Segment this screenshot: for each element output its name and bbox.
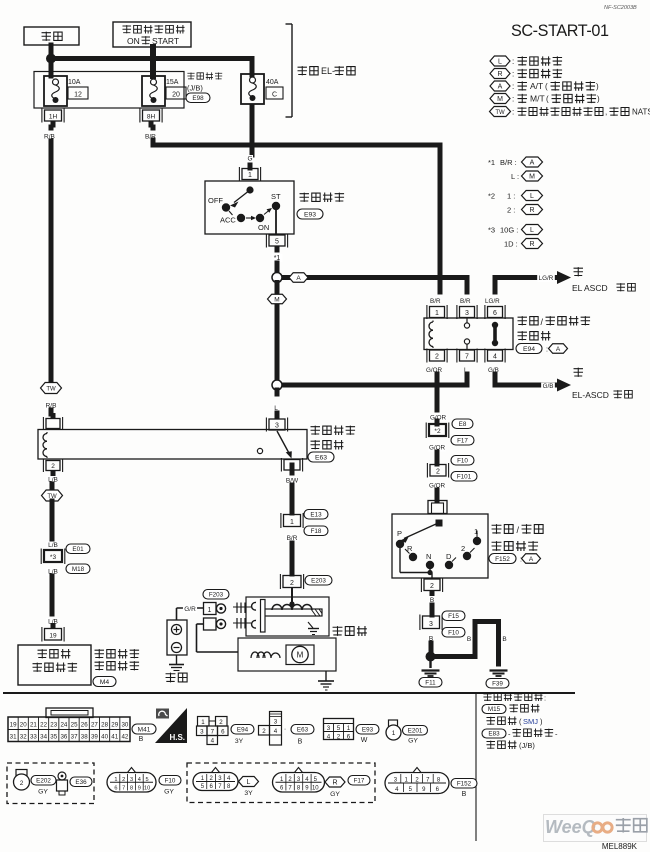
PNP pos D [445,552,456,569]
note *3 [488,225,543,235]
svg-text:1: 1 [201,719,205,726]
note E83 fusebox [482,728,558,738]
svg-text:4: 4 [138,777,141,783]
svg-text:3Y: 3Y [244,790,253,797]
connector E94 pinout [197,717,229,745]
svg-text:5: 5 [275,238,279,245]
svg-text:*2: *2 [434,428,441,435]
svg-text:7: 7 [211,729,215,736]
solenoid plunger bar [262,609,322,616]
note *3 R [504,239,543,249]
title SC-START-01 [511,22,609,40]
svg-text:B: B [139,736,144,743]
wire ignition box to fuse 15A [150,47,156,76]
svg-text:6: 6 [114,786,117,792]
svg-text:E94: E94 [523,346,535,353]
solenoid terminal top [252,602,256,610]
svg-text:L/B: L/B [48,542,58,549]
svg-text:L: L [247,779,251,786]
note JB line2 [486,740,535,750]
svg-text:23: 23 [50,722,57,729]
svg-text:A/T: A/T [530,81,543,91]
svg-text:10G :: 10G : [500,226,518,235]
svg-text:D: D [446,552,452,561]
connector hatch top [233,603,251,614]
svg-text:38: 38 [81,734,88,741]
PNP pos 1 [473,527,481,545]
PNP pos P [396,529,404,548]
svg-text:LG/R: LG/R [539,275,554,282]
svg-text:3: 3 [200,729,204,736]
svg-text::: : [512,82,514,91]
svg-text:A: A [529,556,534,563]
PNP relay wire labels bottom [426,367,499,374]
svg-text:F15: F15 [448,613,459,620]
svg-text:B/R: B/R [460,298,471,305]
wire labels B B [466,636,508,644]
svg-text:G/OR: G/OR [426,367,443,374]
connector *2 [426,421,449,438]
svg-text:4: 4 [493,353,497,360]
svg-text:EL-ASCD: EL-ASCD [572,390,609,400]
connector E202 [14,770,57,796]
legend hex R [490,69,562,79]
solenoid coil [272,601,312,610]
antitheft relay pin 2 [43,459,62,477]
svg-text:F203: F203 [209,592,224,599]
svg-text:SMJ: SMJ [523,717,538,726]
wire TW2 down [50,501,55,539]
svg-text:TW: TW [495,110,505,116]
svg-text:A: A [498,83,503,90]
svg-text:MEL889K: MEL889K [602,842,638,851]
wire pin2-pin3 [430,605,435,615]
wire pin3 to ground junction [429,643,434,652]
svg-text:6: 6 [347,733,351,740]
hex tag A [289,273,308,283]
svg-text:20: 20 [20,722,27,729]
svg-text::: : [546,347,548,354]
PNP relay contact 3-7 [464,319,469,350]
note SMJ line2 [486,716,543,726]
svg-text:E93: E93 [362,727,374,734]
wire G 40A fuse to ignition switch [250,106,252,168]
svg-text:R: R [497,71,502,78]
svg-text:GY: GY [164,789,174,796]
starter cutoff label [33,649,78,672]
svg-text:39: 39 [91,734,98,741]
battery2 plus [172,625,182,635]
svg-text:): ) [597,95,600,104]
svg-text:35: 35 [50,734,57,741]
svg-text:B: B [467,636,471,643]
svg-text:ACC: ACC [220,216,236,225]
svg-text:41: 41 [111,734,118,741]
svg-text:6: 6 [221,729,225,736]
svg-text:1 :: 1 : [507,192,515,201]
svg-text:M: M [529,173,535,180]
svg-text::: : [544,694,546,703]
connector F17 label [348,776,370,786]
svg-text:TW: TW [46,386,56,392]
svg-text:M15: M15 [488,706,501,713]
battery box B1 [24,27,79,45]
svg-text:2: 2 [461,544,465,553]
connector pin 2 F10 [427,456,477,482]
svg-text:33: 33 [30,734,37,741]
branch to relay pin3 [440,278,467,293]
svg-text:(: ( [546,95,549,104]
svg-text:(: ( [545,82,548,91]
wire label R/B 2 [44,402,58,410]
PNP switch pin 2 [421,578,442,597]
svg-text:9: 9 [138,786,141,792]
svg-text:F39: F39 [492,681,503,688]
svg-text:EL-: EL- [321,66,335,76]
antitheft relay pin 1 [43,413,62,430]
dashed box A [7,763,94,804]
svg-text:10: 10 [312,786,319,792]
svg-text:2: 2 [219,719,223,726]
svg-text:27: 27 [91,722,98,729]
smart entry unit box [18,645,91,685]
svg-text:R: R [332,779,337,786]
LG/R wire to EL-ASCD [495,271,571,292]
svg-text:NF-SC2003B: NF-SC2003B [604,5,637,11]
svg-text:M: M [497,96,503,103]
svg-text:21: 21 [30,722,37,729]
svg-text:L: L [530,193,534,200]
antitheft relay pin 4 [281,458,302,472]
motor field coil [251,652,280,658]
PNP relay coil [429,321,433,349]
svg-text:M41: M41 [138,727,151,734]
svg-text:G/B: G/B [543,383,554,390]
wire label G/R [183,606,197,614]
junction node bus-battery [46,54,56,64]
svg-text:28: 28 [101,722,108,729]
connector pin1 E13 F18 [281,510,328,536]
svg-text:E98: E98 [192,95,204,102]
svg-text:*3: *3 [488,226,495,235]
wire label G/OR 1 [429,414,447,421]
svg-text:E94: E94 [237,727,249,734]
HS logo [155,708,187,743]
svg-text:32: 32 [20,734,27,741]
svg-text:F152: F152 [457,781,472,788]
svg-text:36: 36 [60,734,67,741]
svg-text:1: 1 [347,725,351,732]
svg-text:15A: 15A [166,79,179,86]
svg-text:START: START [152,36,179,46]
svg-text:M/T: M/T [530,94,545,104]
svg-text:F10: F10 [165,778,176,785]
antitheft relay switch arm [277,431,292,459]
svg-text:E01: E01 [72,546,84,553]
svg-text:E63: E63 [297,727,309,734]
connector E93 pinout [324,719,354,741]
svg-text:2 :: 2 : [507,206,515,215]
svg-text:NATS: NATS [632,108,650,117]
svg-text:L :: L : [511,172,519,181]
svg-text:F17: F17 [354,778,365,785]
legend hex TW [490,107,650,117]
connector *3 [41,549,65,565]
svg-text:19: 19 [49,632,57,639]
svg-text:26: 26 [81,722,88,729]
svg-text:30: 30 [121,722,128,729]
svg-text:E201: E201 [408,728,423,735]
svg-text:7: 7 [122,786,125,792]
bolt connector 1 [204,603,226,615]
svg-text:·: · [284,726,286,733]
antitheft relay coil [43,432,47,458]
smart unit pin 19 [42,623,64,642]
PNP pos N [426,552,434,569]
svg-text:GY: GY [330,791,340,798]
svg-text:G: G [247,156,252,163]
connector E93 label [356,725,379,745]
solenoid terminal bottom [252,620,256,628]
watermark MEL [602,842,638,851]
svg-text:): ) [596,82,599,91]
svg-text:M: M [297,651,304,660]
svg-text:2: 2 [122,777,125,783]
svg-text:19: 19 [10,722,17,729]
svg-text::: : [512,95,514,104]
svg-text::: : [512,57,514,66]
svg-text:F11: F11 [425,680,436,687]
wire battery to motor [197,624,239,652]
svg-text:1: 1 [435,310,439,317]
svg-text:5: 5 [146,777,149,783]
svg-text:SC-START-01: SC-START-01 [511,22,609,40]
connector pin 3 F15 F10 [420,611,465,637]
separator line [3,692,575,694]
connector L tag [239,777,259,798]
svg-text:3: 3 [274,719,278,726]
svg-text:F101: F101 [457,474,472,481]
svg-text:OFF: OFF [208,196,223,205]
wire label L center [273,390,279,416]
connector M41 label [132,724,156,743]
svg-text:P: P [397,529,402,538]
ignition sw ST [271,192,281,210]
svg-text:4: 4 [211,738,215,745]
svg-text:1: 1 [208,607,212,614]
svg-text:34: 34 [40,734,47,741]
svg-text:25: 25 [71,722,78,729]
connector E63 pinout [259,712,287,746]
note *2 [488,191,543,201]
svg-text:E93: E93 [304,212,316,219]
svg-text:12: 12 [74,92,82,99]
wire A to PNP relay [277,275,440,280]
wire label L/B 2 [46,542,60,550]
ovals E01 M18 [66,544,90,574]
wire B/R seg [290,543,295,574]
PNP relay pin 2 [427,349,447,363]
PNP relay pin 6 [485,305,505,319]
svg-text:1D :: 1D : [504,240,518,249]
svg-text:8: 8 [130,786,133,792]
wire label L/B 3 [46,568,60,576]
svg-text:E83: E83 [488,731,500,738]
ignition switch pin 5 [266,234,287,253]
fuse box label [186,72,222,102]
ignition ON-START box [113,22,191,47]
header doc number [604,5,637,11]
node ring M-split [272,380,282,390]
fuse F2 15A [142,76,186,106]
svg-text:31: 31 [10,734,17,741]
svg-text:A: A [296,275,301,282]
wire label G/OR 3 [428,482,446,489]
PNP relay pin 1 [427,305,447,319]
connector F152 label [451,779,477,799]
wire L horizontal to pin7 [277,374,467,385]
PNP relay pin 3 [457,305,477,319]
svg-text:1: 1 [392,730,396,737]
PNP pos 2 [461,544,475,560]
svg-text:GY: GY [408,738,418,745]
ground F39 [486,671,509,689]
svg-text:37: 37 [71,734,78,741]
svg-text:L: L [530,227,534,234]
svg-text:E203: E203 [311,578,326,585]
svg-text:3Y: 3Y [235,738,244,745]
fuse box J/B outline [34,72,184,109]
solenoid contact bar [261,600,266,633]
wire to F39 ground [435,622,499,665]
connector E94 label [231,725,254,746]
smart entry labels [93,649,139,686]
svg-text:F152: F152 [495,556,510,563]
starter label [333,626,367,636]
wire B/R 15A feed to right [153,140,440,279]
see EL-power label [298,66,356,76]
note *2 R [507,205,543,215]
svg-text:2: 2 [51,463,55,470]
watermark weeqoo [544,815,647,842]
ignition switch box E93 [205,181,294,234]
svg-text:ST: ST [271,192,281,201]
note see below [483,693,546,703]
svg-text:1: 1 [290,519,294,526]
ignition switch label [297,193,344,219]
connector E63 label [291,725,314,746]
PNP switch labels [489,524,543,563]
svg-text:2: 2 [435,353,439,360]
motor M symbol [286,645,314,665]
svg-text:4: 4 [274,728,278,735]
svg-text:L: L [498,58,502,65]
svg-text:M18: M18 [72,566,85,573]
battery2 minus [172,643,182,653]
connector F10 label [159,776,181,796]
wire B/W seg2 [290,485,295,513]
svg-text:C: C [272,92,277,99]
wire pin2 to solenoid [291,588,293,610]
svg-text:1: 1 [248,172,252,179]
svg-text:F10: F10 [457,458,468,465]
bus wire battery to 40A fuse [51,59,252,76]
bolt connector 2 [204,618,226,630]
connector M41 grid [8,708,130,742]
svg-text:B: B [298,739,303,746]
svg-text:LG/R: LG/R [485,298,500,305]
wire label L/B 1 [46,476,60,484]
svg-text:8H: 8H [147,113,156,120]
svg-text:3: 3 [429,621,433,628]
svg-text:3: 3 [130,777,133,783]
svg-text:5: 5 [337,725,341,732]
svg-text:3: 3 [275,422,279,429]
wire B/R col down to pin1 [438,278,443,293]
PNP P-N wire to pin2 [400,548,433,578]
wire label B/R starter [285,535,299,543]
junction dot ground [426,652,436,662]
legend hex A [490,81,599,91]
svg-text:E202: E202 [36,778,51,785]
svg-text:6: 6 [493,310,497,317]
wire label R/B left column [44,125,55,141]
starter solenoid box [246,597,329,636]
svg-text:3: 3 [327,725,331,732]
hex tag M [268,294,287,304]
antitheft relay contact circle [257,448,262,453]
connector pin2 E203 [280,574,332,589]
PNP relay wire labels top [430,298,500,305]
svg-text:2: 2 [430,583,434,590]
ovals E8 F17 [451,419,474,445]
antitheft relay labels [308,426,355,462]
svg-text:2: 2 [436,468,440,475]
PNP relay contact 6-4 [492,322,498,346]
svg-text:N: N [426,552,431,561]
label to EL-ASCD bottom [572,368,632,400]
svg-text:29: 29 [111,722,118,729]
legend hex M [490,94,600,104]
PNP relay labels [516,316,590,353]
svg-text:B/R: B/R [430,298,441,305]
svg-text:7: 7 [465,353,469,360]
svg-text:R: R [529,207,534,214]
wire G/OR seg2 [435,452,440,464]
ground F11 [419,661,442,687]
connector E201 pinout [386,720,401,740]
svg-text:2: 2 [290,580,294,587]
svg-text:40A: 40A [266,79,279,86]
svg-text:M: M [274,296,279,303]
svg-text:E36: E36 [75,779,87,786]
svg-text:H.S.: H.S. [169,733,185,742]
wire label G above ignition pin1 [247,155,253,163]
ignition sw ST wire [275,209,277,234]
svg-text:2: 2 [262,728,266,735]
connector L 8pin [193,768,238,791]
battery2 box [167,620,187,655]
solenoid inner ground [308,622,319,635]
wire label L/B 4 [46,618,60,626]
dashed box B [187,763,375,803]
svg-text::: : [512,70,514,79]
pin 1H below fuse F1 [42,109,64,128]
PNP pos R [405,544,417,561]
svg-text:40: 40 [101,734,108,741]
wire G/OR seg3 [435,490,440,500]
wire R/B battery feed down-left [49,141,54,381]
